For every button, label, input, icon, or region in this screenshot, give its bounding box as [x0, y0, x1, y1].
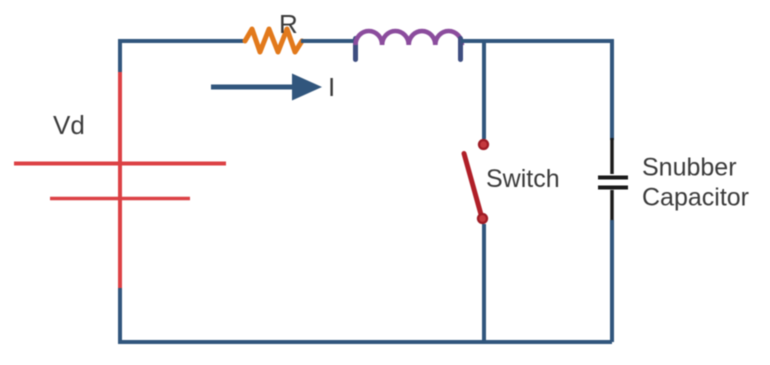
wire between resistor and inductor — [301, 39, 356, 43]
switch top contact dot — [479, 140, 488, 149]
capacitor top lead — [610, 138, 614, 174]
inductor L coil — [356, 31, 462, 45]
switch blade — [464, 154, 481, 215]
wire right vertical top — [610, 39, 614, 140]
battery bottom plate — [50, 197, 190, 201]
inductor right tick — [458, 39, 463, 60]
current arrow shaft — [211, 85, 294, 90]
wire right vertical bottom — [610, 220, 614, 342]
svg-text:Vd: Vd — [53, 110, 85, 140]
wire left vertical blue bottom — [118, 288, 122, 342]
capacitor top plate — [598, 176, 628, 180]
capacitor bottom plate — [598, 186, 628, 190]
current arrow head — [292, 74, 322, 101]
battery Vd vertical red lead — [118, 72, 122, 288]
switch bottom contact dot — [478, 214, 487, 223]
inductor left tick — [353, 39, 358, 60]
wire bottom horizontal — [118, 340, 612, 344]
wire left vertical blue top — [118, 39, 122, 72]
wire switch branch top — [482, 41, 486, 139]
wire after inductor to top-right corner — [461, 39, 612, 43]
svg-text:I: I — [328, 72, 335, 102]
wire switch branch bottom — [482, 224, 486, 342]
wire top-left horizontal — [118, 39, 246, 43]
capacitor bottom lead — [610, 190, 614, 220]
svg-text:Snubber: Snubber — [642, 154, 737, 182]
svg-text:R: R — [279, 9, 298, 39]
battery top plate — [14, 162, 226, 166]
resistor R — [245, 29, 302, 52]
svg-text:Capacitor: Capacitor — [642, 184, 749, 212]
svg-text:Switch: Switch — [486, 165, 560, 193]
